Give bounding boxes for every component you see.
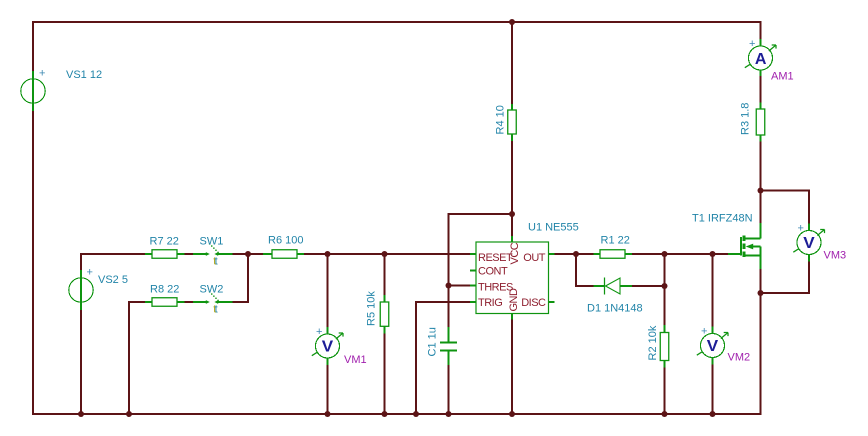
voltage source VS2 (69, 267, 93, 311)
junction VCC node (509, 211, 515, 217)
resistor R4 (508, 104, 517, 141)
wire node A to R6 (248, 253, 263, 255)
wire R5 branch upper (384, 254, 386, 295)
svg-text:R2 10k: R2 10k (647, 325, 659, 360)
wire VM2 column upper (712, 254, 714, 327)
resistor R5 (380, 295, 389, 334)
junction VM1 top (325, 251, 331, 257)
wire VM1 branch upper (327, 254, 329, 327)
svg-text:SW2: SW2 (200, 284, 224, 296)
wire row302 left vertical (128, 301, 130, 414)
wire SW1 to node A (233, 253, 250, 255)
wire R1 to gate row (632, 253, 728, 255)
svg-text:GND: GND (508, 288, 520, 312)
svg-text:t: t (215, 256, 218, 268)
resistor R7 (145, 250, 185, 259)
junction rail R8 (126, 411, 132, 417)
junction R5 top (382, 251, 388, 257)
wire R4 to VCC pin (511, 141, 513, 236)
voltage source VS1 (21, 68, 46, 112)
junction dot top R4 (509, 19, 515, 25)
svg-text:T1 IRFZ48N: T1 IRFZ48N (692, 213, 753, 225)
wire R2 column upper (664, 254, 666, 325)
wire source to bottom rail (760, 269, 762, 415)
wire OUT to R1 (555, 253, 594, 255)
svg-text:VM2: VM2 (728, 352, 751, 364)
svg-text:R3 1.8: R3 1.8 (740, 103, 752, 135)
wire R8 to SW2 (185, 301, 194, 303)
svg-text:+: + (749, 38, 755, 50)
junction rail VS2 (78, 411, 84, 417)
resistor R1 (594, 250, 633, 259)
svg-text:RESET: RESET (478, 252, 513, 264)
junction rail VM2 (710, 411, 716, 417)
svg-text:V: V (707, 338, 719, 355)
wire SW2 to node A column (233, 301, 250, 303)
wire TRIG horizontal (416, 301, 470, 303)
voltmeter VM1 (312, 326, 343, 365)
svg-text:VM3: VM3 (824, 250, 847, 262)
svg-text:+: + (87, 267, 93, 279)
capacitor C1 (440, 327, 457, 365)
wire right column AM1 top (760, 21, 762, 40)
wire VM3 right upper (808, 190, 810, 224)
wire row254 VS2 to R7 (80, 253, 145, 255)
label t (SW1) (213, 256, 217, 268)
wire top rail (33, 21, 762, 23)
svg-text:VS1 12: VS1 12 (66, 69, 102, 81)
svg-text:VCC: VCC (509, 242, 521, 264)
svg-text:U1 NE555: U1 NE555 (528, 222, 579, 234)
wire VCC column upper (511, 21, 513, 104)
svg-text:A: A (755, 51, 767, 68)
wire VM2 column lower (712, 365, 714, 415)
junction rail GND (509, 411, 515, 417)
junction rail C1 (446, 411, 452, 417)
op-amp U1 NE555 box (470, 236, 555, 320)
svg-text:+: + (701, 326, 707, 338)
svg-text:+: + (39, 68, 45, 80)
wire R6 to RESET (304, 253, 470, 255)
svg-text:+: + (316, 326, 322, 338)
wire R3 to drain (760, 142, 762, 224)
junction D1 right (662, 283, 668, 289)
svg-text:R8 22: R8 22 (150, 284, 179, 296)
svg-text:DISC: DISC (521, 297, 546, 309)
junction VM2 top (710, 251, 716, 257)
svg-text:V: V (322, 339, 334, 356)
wire THRES column (448, 213, 450, 327)
wire row302 to R8 (128, 301, 145, 303)
label t (SW2) (213, 304, 217, 316)
junction OUT node (573, 251, 579, 257)
wire D1 left (576, 285, 594, 287)
wire C1 bottom (448, 365, 450, 414)
junction R1 right (662, 251, 668, 257)
svg-text:R7 22: R7 22 (150, 236, 179, 248)
resistor R8 (145, 298, 185, 307)
diode D1 (594, 278, 633, 295)
ammeter AM1 (745, 38, 776, 76)
svg-text:VM1: VM1 (344, 354, 367, 366)
wire VS2 bottom (80, 310, 82, 414)
svg-text:VS2 5: VS2 5 (98, 274, 128, 286)
voltmeter VM2 (697, 326, 728, 365)
wire VM3 right lower (808, 262, 810, 295)
wire D1 branch vertical (575, 253, 577, 287)
junction rail TRIG (413, 411, 419, 417)
wire R7 to SW1 (185, 253, 194, 255)
wire VM3 bottom horizontal (761, 292, 810, 294)
voltmeter VM3 (793, 223, 824, 262)
wire D1 right (632, 285, 665, 287)
svg-text:OUT: OUT (523, 252, 546, 264)
switch SW2 (193, 291, 233, 304)
wire R5 branch lower (384, 334, 386, 415)
wire VS2 top (80, 253, 82, 270)
svg-text:C1 1u: C1 1u (427, 327, 439, 356)
wire THRES top horizontal (449, 213, 514, 215)
junction drain node (758, 188, 764, 194)
svg-text:t: t (215, 304, 218, 316)
wire VM1 branch lower (327, 365, 329, 414)
junction source node (758, 290, 764, 296)
resistor R3 (756, 103, 765, 142)
wire THRES stub link (449, 285, 471, 287)
wire GND column (511, 320, 513, 415)
svg-text:V: V (803, 235, 815, 252)
junction node A (245, 251, 251, 257)
wire VM3 top horizontal (761, 190, 811, 192)
wire bottom rail (33, 413, 762, 415)
svg-text:R5 10k: R5 10k (366, 291, 378, 326)
junction rail R2 (662, 411, 668, 417)
wire R2 column lower (664, 368, 666, 415)
svg-text:R6 100: R6 100 (268, 235, 303, 247)
wire TRIG vertical (415, 301, 417, 414)
wire AM1 to R3 (760, 76, 762, 103)
svg-text:R1 22: R1 22 (601, 235, 630, 247)
svg-text:TRIG: TRIG (478, 297, 502, 309)
svg-text:+: + (798, 223, 804, 235)
svg-text:AM1: AM1 (771, 71, 794, 83)
switch SW1 (193, 243, 233, 256)
junction rail VM1 (325, 411, 331, 417)
transistor T1 IRFZ48N mosfet (728, 223, 761, 269)
svg-text:R4 10: R4 10 (495, 105, 507, 134)
svg-text:D1 1N4148: D1 1N4148 (587, 303, 643, 315)
wire node A vertical (247, 254, 249, 303)
resistor R2 (660, 325, 669, 368)
junction THRES node (446, 283, 452, 289)
svg-text:CONT: CONT (478, 266, 508, 278)
svg-text:SW1: SW1 (200, 236, 224, 248)
wire left column upper (32, 21, 34, 71)
junction rail R5 (382, 411, 388, 417)
resistor R6 (263, 250, 304, 259)
wire left column lower (32, 111, 34, 415)
